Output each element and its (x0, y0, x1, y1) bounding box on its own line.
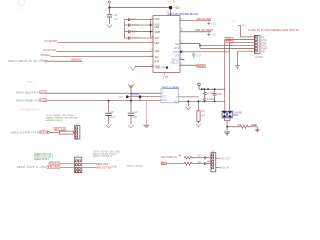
svg-text:PX5: PX5 (40, 99, 47, 102)
svg-text:C17: C17 (132, 30, 137, 34)
wire RXD to con (230, 42, 255, 44)
wires to J6 (60, 163, 75, 165)
usb pwr wire 2 (180, 31, 211, 33)
svg-text:4u7: 4u7 (111, 115, 116, 119)
U1 left pin numbers (150, 17, 153, 67)
wire TXD to con (225, 39, 255, 41)
svg-text:R9: R9 (237, 123, 241, 127)
svg-text:GND: GND (162, 100, 167, 102)
label RXD (225, 40, 233, 43)
svg-text:USB_D-: USB_D- (171, 59, 180, 61)
svg-text:C8: C8 (110, 110, 114, 114)
svg-text:C14: C14 (113, 13, 118, 17)
resistor R9 zigzag (240, 125, 251, 128)
power +5V top (108, 1, 110, 8)
U2 out wires (179, 96, 200, 98)
svg-text:RX3: RX3 (40, 131, 47, 134)
svg-text:RX5: RX5 (40, 91, 47, 94)
op U2 box (161, 89, 179, 103)
svg-text:NC: NC (174, 101, 178, 103)
svg-text:220R: 220R (206, 98, 214, 101)
svg-text:GRAY NOTE 3: GRAY NOTE 3 (93, 155, 113, 158)
svg-text:USB_D+: USB_D+ (170, 62, 180, 64)
svg-text:RX: RX (161, 162, 165, 165)
resistor bottom right 1 (184, 156, 193, 159)
wire U1 txd step (180, 43, 200, 45)
svg-text:RST: RST (155, 62, 160, 64)
ground DIN (224, 132, 230, 135)
svg-text:USB +5V PWR2: USB +5V PWR2 (195, 28, 214, 32)
svg-text:RTS: RTS (175, 48, 180, 50)
resistor R8 (198, 101, 200, 111)
svg-text:R8: R8 (201, 109, 205, 113)
wire to C14 (108, 8, 110, 14)
+5V mid wire (126, 96, 161, 98)
svg-text:TO LED DISP: TO LED DISP (44, 39, 58, 43)
svg-text:C20: C20 (211, 34, 216, 36)
svg-text:RX_IN: RX_IN (55, 128, 65, 131)
ground wire into U1 pin1 (135, 65, 153, 67)
svg-text:0.1uF: 0.1uF (132, 23, 139, 27)
resistor R6 (203, 89, 205, 97)
svg-text:LED: LED (155, 43, 160, 45)
svg-text:MIDI_IN: MIDI_IN (220, 165, 229, 169)
svg-text:MIDI: MIDI (27, 80, 33, 84)
gnd wire con (241, 36, 255, 38)
svg-text:LPC11U35FBD48/401: LPC11U35FBD48/401 (169, 12, 199, 16)
green note bottom left (34, 153, 54, 161)
capacitor C21 (214, 89, 216, 93)
DIN bottom wires (224, 117, 230, 120)
long verticals TXD RXD down (224, 40, 226, 112)
label TXD (225, 37, 233, 40)
svg-text:MIDI OUT 5V: MIDI OUT 5V (96, 166, 111, 170)
svg-text:MIDI_OUT: MIDI_OUT (220, 156, 230, 160)
svg-text:GREEN LINE 3: GREEN LINE 3 (46, 120, 63, 122)
gray note bottom mid (93, 150, 120, 158)
svg-text:TXOUT: TXOUT (50, 162, 60, 165)
svg-text:VCC: VCC (162, 97, 167, 99)
svg-text:C18: C18 (196, 54, 201, 57)
power +5V mid symbol (128, 85, 134, 113)
svg-text:CTS: CTS (175, 55, 180, 57)
svg-text:MIDI IN(A) RX: MIDI IN(A) RX (16, 90, 39, 94)
svg-text:note: note (231, 20, 236, 23)
svg-text:VBAT: VBAT (155, 31, 161, 34)
svg-text:RX5V: RX5V (131, 94, 140, 97)
svg-text:TX+5V: TX+5V (48, 166, 60, 169)
pink net vertical (146, 101, 148, 125)
svg-text:+5V: +5V (174, 6, 181, 10)
svg-text:RXD0: RXD0 (173, 52, 180, 54)
svg-text:MIDI OUT: MIDI OUT (96, 162, 109, 166)
junction dot A (108, 7, 110, 9)
svg-text:logo: logo (17, 8, 22, 11)
connector J6 (75, 157, 82, 173)
svg-text:100n: 100n (217, 93, 223, 96)
op U1 box (153, 16, 180, 73)
wire U1 rxd (180, 51, 230, 53)
pink ground (143, 125, 151, 128)
usb pwr wire 1 (180, 20, 211, 22)
bottom red label U1 (197, 65, 206, 69)
svg-text:I2C SCL/SDA: I2C SCL/SDA (43, 48, 57, 52)
svg-text:USB +5V PWR: USB +5V PWR (196, 17, 211, 21)
svg-text:4k7: 4k7 (201, 113, 206, 117)
svg-text:C22: C22 (197, 155, 202, 158)
svg-text:1uF: 1uF (113, 17, 118, 21)
svg-text:BOOT: BOOT (197, 65, 205, 68)
J4 mid stub (207, 160, 211, 162)
svg-text:SCL: SCL (155, 57, 160, 59)
resistor bottom left (59, 131, 73, 134)
power +5V right (198, 83, 201, 89)
svg-text:TXD: TXD (175, 44, 180, 46)
connector J5 (75, 126, 80, 140)
+5V rail (199, 88, 225, 90)
ground C10 (128, 125, 134, 128)
wire +5V horizontal (109, 7, 170, 9)
svg-text:MIDI PWR NOTE: MIDI PWR NOTE (19, 108, 39, 112)
connector CON6 (254, 35, 260, 54)
svg-text:USBDM USBDP: USBDM USBDP (155, 67, 167, 69)
svg-text:0.1uF: 0.1uF (132, 36, 139, 40)
small cap on rxd wire (192, 52, 195, 58)
svg-text:MIDI IN(B) 5V: MIDI IN(B) 5V (16, 98, 39, 102)
connector J4 (211, 153, 216, 172)
svg-text:+5V: +5V (39, 59, 46, 62)
svg-text:GND: GND (251, 123, 257, 127)
svg-text:VSS: VSS (155, 27, 160, 29)
resistor R7 (203, 97, 205, 101)
svg-text:EXT MIDI IN: EXT MIDI IN (161, 155, 177, 159)
U1 right pin numbers (181, 18, 184, 66)
junction dot B +5V (169, 6, 172, 9)
svg-text:DIN-5 JACK: DIN-5 JACK (127, 165, 143, 168)
faint yellow smudge (167, 0, 176, 2)
U1 left pin names (155, 19, 161, 68)
svg-text:I2CSDA: I2CSDA (41, 53, 51, 57)
svg-text:MIDI: MIDI (233, 114, 238, 117)
svg-text:XC1: XC1 (155, 38, 160, 40)
faint logo (18, 0, 24, 6)
ground arrow under C14 (107, 24, 113, 27)
ground C8 (106, 125, 112, 128)
green note mid (46, 114, 78, 122)
capacitor C15 (128, 18, 130, 39)
svg-text:74AHC1G14DBV: 74AHC1G14DBV (161, 86, 179, 89)
svg-text:CLOSE JP1 IF USB POWERED FROM: CLOSE JP1 IF USB POWERED FROM HOST PC (248, 28, 299, 32)
svg-text:RXD: RXD (226, 41, 231, 44)
DIN jack boxes (222, 110, 233, 118)
svg-text:P5V: P5V (261, 49, 266, 53)
junction dots row B (108, 100, 110, 102)
svg-text:+5V: +5V (118, 95, 123, 99)
capacitor C10 (128, 113, 135, 115)
svg-text:1uF: 1uF (133, 115, 138, 119)
capacitor C8 (108, 101, 110, 113)
U1 right pin names blue (170, 44, 180, 65)
svg-text:C15: C15 (132, 17, 137, 21)
ground con (235, 66, 240, 69)
svg-text:VDD: VDD (155, 19, 160, 21)
svg-text:SERVO GND IN +5V (J5): SERVO GND IN +5V (J5) (8, 59, 38, 63)
svg-text:SDA: SDA (155, 50, 160, 53)
svg-text:DIN5: DIN5 (111, 166, 117, 169)
svg-text:MIDI OUT A +5V: MIDI OUT A +5V (17, 165, 47, 169)
svg-text:SERVO: SERVO (71, 58, 82, 62)
svg-text:C19: C19 (211, 24, 216, 26)
svg-text:C23: C23 (197, 161, 202, 164)
svg-text:C10: C10 (133, 110, 138, 114)
con J1 feed vertical (238, 26, 241, 37)
svg-text:US: US (163, 76, 168, 79)
capacitor C14 (107, 15, 112, 17)
wire into U1 top (170, 8, 172, 16)
svg-text:CON6: CON6 (255, 55, 263, 59)
small pink ground u2 (187, 101, 189, 106)
J4 right wires (216, 157, 220, 159)
svg-text:JP1: JP1 (242, 26, 247, 28)
svg-text:GREEN NOTE 3: GREEN NOTE 3 (34, 158, 50, 161)
bottom right row2 (161, 162, 166, 165)
svg-text:nt: nt (50, 33, 52, 36)
decoupling caps cluster (125, 20, 153, 39)
svg-text:MIDI IN RX (TH): MIDI IN RX (TH) (11, 130, 39, 134)
